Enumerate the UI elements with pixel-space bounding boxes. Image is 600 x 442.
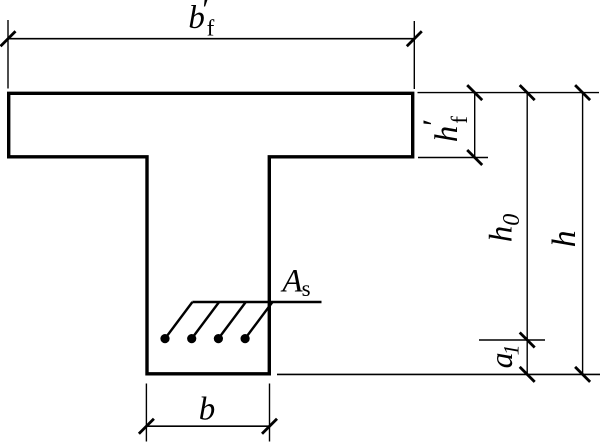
tick top h'f: [467, 85, 482, 100]
extension line right of b dimension: [269, 384, 271, 442]
leader line 1: [165, 302, 192, 339]
svg-text:b′f: b′f: [188, 0, 214, 41]
leader horizontal line under As: [192, 301, 321, 303]
svg-text:h′f: h′f: [416, 116, 473, 143]
leader line 3: [218, 302, 245, 339]
tick bottom h'f: [467, 150, 482, 165]
extension line beam bottom level: [277, 373, 600, 375]
dimension line h: [582, 93, 584, 375]
dimension line b: [146, 425, 269, 427]
extension line left of b dimension: [145, 384, 147, 442]
tick top h0: [520, 85, 535, 100]
tick bottom a1: [520, 367, 535, 382]
rebar dot 4: [241, 334, 250, 343]
svg-text:As: As: [280, 264, 310, 301]
tick bottom h: [575, 367, 590, 382]
svg-text:h0: h0: [484, 214, 525, 242]
tick left b'f: [1, 31, 16, 46]
extension line top right (flange top level): [418, 92, 600, 94]
T-beam cross-section outline: [9, 93, 413, 374]
extension line right of b'f dimension: [413, 21, 415, 89]
dimension line b'f: [8, 38, 414, 40]
tick right b: [262, 419, 277, 434]
svg-text:b: b: [199, 391, 216, 427]
rebar dot 3: [214, 334, 223, 343]
leader line 2: [192, 302, 219, 339]
rebar dot 1: [160, 334, 169, 343]
svg-text:h: h: [546, 230, 583, 247]
leader line 4: [245, 302, 272, 339]
svg-text:a1: a1: [483, 344, 524, 368]
tick top h: [575, 85, 590, 100]
dimension line h0 / a1: [526, 93, 528, 375]
dimension line h'f: [474, 93, 476, 158]
tick left b: [139, 419, 154, 434]
tick bottom h0: [520, 333, 535, 348]
extension line flange bottom level: [418, 157, 488, 159]
tick right b'f: [407, 31, 422, 46]
rebar dot 2: [187, 334, 196, 343]
extension line left of b'f dimension: [7, 20, 9, 89]
extension line rebar level: [479, 339, 545, 341]
